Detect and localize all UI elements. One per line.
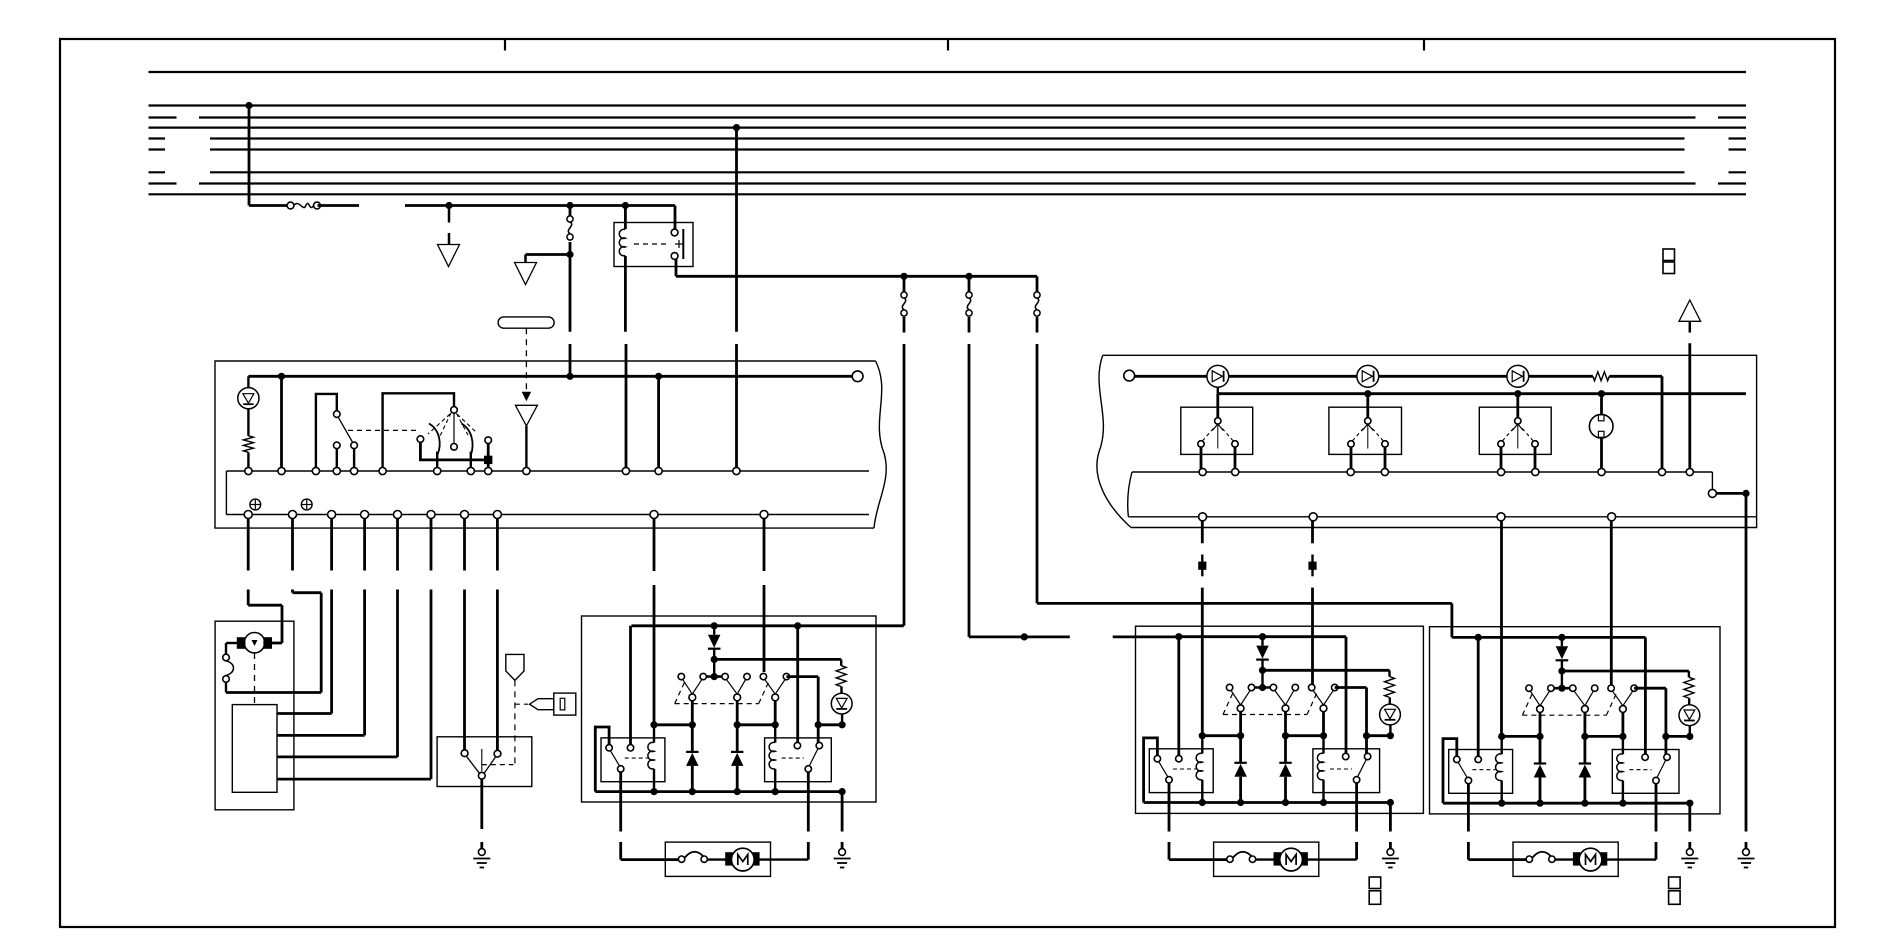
wire to resistor (driver) xyxy=(840,659,842,665)
diode D-top (LR) xyxy=(1256,637,1269,671)
junction diode out (LR) xyxy=(1259,667,1266,674)
wire arrow drop xyxy=(1688,343,1691,468)
wire relay contact feed xyxy=(674,206,677,230)
relay RB common (driver) xyxy=(805,766,811,772)
accessory socket xyxy=(1589,414,1613,438)
junction ground rail (driver) xyxy=(839,788,846,795)
lock switch blades xyxy=(467,756,496,773)
switch2 center blade xyxy=(453,413,455,443)
main switch box outline xyxy=(1097,355,1757,527)
relay RB box (driver) xyxy=(765,738,832,782)
motor M3 box (LR) xyxy=(1214,842,1319,876)
diode circle D2 xyxy=(1357,365,1379,387)
wire bus line 9 xyxy=(149,193,1747,195)
relay RA blade (driver) xyxy=(611,751,620,766)
switch2 fan dashes xyxy=(428,413,477,436)
junction step xyxy=(1742,490,1749,497)
switch blades (RR) xyxy=(1531,691,1550,705)
switch3 contacts xyxy=(1498,441,1538,447)
switch1 blade xyxy=(338,417,352,442)
diode D-top (driver) xyxy=(708,626,721,660)
window motor M1 box xyxy=(215,621,294,810)
junction master bus 1 xyxy=(278,373,285,380)
wire RA NO riser (RR) xyxy=(1477,637,1480,756)
page arrow down A xyxy=(438,245,460,267)
junction ground rail (driver) xyxy=(772,788,779,795)
relay coil xyxy=(619,229,625,256)
wire motor right lead (driver) xyxy=(759,842,808,860)
junction row dot (RR) xyxy=(1536,733,1543,740)
wire drop 904 lower xyxy=(903,344,906,626)
wire switch2 feed xyxy=(1366,394,1369,418)
ground G-main xyxy=(1738,849,1755,868)
switch linkage dashed xyxy=(348,429,419,431)
wire drop pin5 lower xyxy=(277,590,398,757)
LED indicator (RR) xyxy=(1679,705,1700,726)
window module LR box xyxy=(1136,626,1424,813)
lock knob switch box xyxy=(437,737,532,787)
wire bus line 6 xyxy=(149,148,1747,150)
switch contact 5 (LR) xyxy=(1309,684,1315,690)
relay RB pins (RR) xyxy=(1642,754,1670,760)
page arrow up xyxy=(1679,300,1701,321)
wire switch feed into box xyxy=(569,344,572,376)
wire LED down (LR) xyxy=(1389,725,1391,736)
wire lock ground lead lower xyxy=(480,842,483,849)
wire drop RR1 upper xyxy=(1201,521,1204,544)
terminal main bus end xyxy=(1124,370,1135,381)
junction ground rail (LR) xyxy=(1237,799,1244,806)
switch contact 6 (RR) xyxy=(1631,685,1637,691)
switch pole (RR) xyxy=(1537,706,1544,713)
wire switch3 contact drops xyxy=(1501,447,1535,468)
junction m2 rail riser xyxy=(1475,634,1482,641)
junction diode out (RR) xyxy=(1558,667,1565,674)
wire switch1 contact drops xyxy=(337,449,354,468)
relay contact pins xyxy=(671,229,678,259)
wire drop pin9 lower xyxy=(653,585,656,725)
wire relay coil feed xyxy=(624,206,627,230)
relay RA box (LR) xyxy=(1149,749,1213,793)
switch pole (RR) xyxy=(1620,706,1627,713)
switch2 blade L xyxy=(429,424,440,456)
diode clamp (LR) xyxy=(1279,736,1292,803)
page ref square C1 xyxy=(1669,877,1681,889)
switch1 pivot xyxy=(334,411,341,418)
junction feeder-ground arrow xyxy=(445,202,452,209)
junction rail2 sw3 xyxy=(1514,390,1521,397)
wire drop pin7 upper xyxy=(463,519,466,571)
wire bus line 3 xyxy=(149,116,1747,118)
wire drop 904 upper xyxy=(903,276,906,293)
wire resistor to LED (RR) xyxy=(1688,698,1690,705)
wire switch2 contact drops xyxy=(1351,447,1385,468)
switch2 left contact xyxy=(417,436,424,443)
junction row dot (RR) xyxy=(1662,733,1669,740)
arrow head filled xyxy=(522,392,532,402)
wire junction row 2 (driver) xyxy=(737,723,775,726)
motor M2 brushes (driver) xyxy=(726,853,759,865)
wire diode to contacts (LR) xyxy=(1261,670,1263,687)
switch contact 1 (RR) xyxy=(1526,685,1532,691)
wire switch1 feed xyxy=(1216,394,1219,418)
wire contact to RB (LR) xyxy=(1335,688,1367,754)
motor M4 box (RR) xyxy=(1513,842,1618,876)
relay RA coil feed (RR) xyxy=(1500,736,1502,754)
wire RB common down (LR) xyxy=(1355,783,1358,832)
wire RA NO riser (driver) xyxy=(629,626,632,745)
motor M4 body (RR) xyxy=(1579,848,1602,871)
lock switch pins xyxy=(461,750,501,757)
fusible link xyxy=(287,202,320,209)
wire drop 1037 upper xyxy=(1036,276,1039,293)
wire thermal to motor (LR) xyxy=(1256,858,1274,860)
page ref square B2 xyxy=(1369,891,1381,905)
junction row dot (LR) xyxy=(1387,732,1394,739)
resistor R-ind (RR) xyxy=(1684,677,1694,698)
motor M2 box (driver) xyxy=(665,842,770,876)
wire RA common down (RR) xyxy=(1467,784,1470,832)
diode clamp (RR) xyxy=(1579,736,1592,803)
junction rail2 socket xyxy=(1598,390,1605,397)
junction ground rail (driver) xyxy=(734,788,741,795)
wire motor right lead (RR) xyxy=(1607,842,1656,860)
main switch connector row xyxy=(1128,513,1756,521)
junction row dot (LR) xyxy=(1282,732,1289,739)
junction row dot (RR) xyxy=(1581,733,1588,740)
motor M3 body (LR) xyxy=(1280,848,1303,871)
wire switch3 feed xyxy=(1516,394,1519,418)
wire motor left lead (LR) xyxy=(1169,842,1227,860)
page ref square B1 xyxy=(1369,877,1381,889)
switch blades (driver) xyxy=(765,680,785,694)
ground G-LR xyxy=(1382,849,1399,868)
wire resistor to LED (LR) xyxy=(1389,697,1391,704)
wire rail2 link xyxy=(1217,381,1219,394)
switch2 center bottom contact xyxy=(451,444,458,451)
arrow triangle open xyxy=(515,405,537,426)
wire rail1 drop xyxy=(1661,376,1664,468)
switch contact 5 (driver) xyxy=(760,673,766,679)
wire drop pin4 upper xyxy=(363,519,366,571)
wire junction row 3 (LR) xyxy=(1367,734,1391,737)
wire drop pin10 upper xyxy=(763,519,766,572)
wire motor right lead (LR) xyxy=(1307,842,1356,860)
junction contact bar (RR) xyxy=(1558,685,1565,692)
relay RB dashed (RR) xyxy=(1629,769,1651,771)
switch contact 3 (LR) xyxy=(1270,684,1276,690)
junction row dot (RR) xyxy=(1619,733,1626,740)
page arrow down B xyxy=(515,263,537,285)
diode clamp (driver) xyxy=(686,725,699,792)
resistor R-ind (LR) xyxy=(1385,677,1395,698)
wire junction row 3 (driver) xyxy=(818,723,842,726)
relay RA pins (driver) xyxy=(606,745,634,751)
junction row dot (LR) xyxy=(1199,732,1206,739)
wire bus4 drop upper xyxy=(735,128,738,332)
junction row dot (driver) xyxy=(772,721,779,728)
wire module ground rail (RR) xyxy=(1443,802,1690,805)
relay RA blade (RR) xyxy=(1458,763,1467,778)
wire motor left lead (driver) xyxy=(621,842,679,860)
junction switched rail B xyxy=(965,273,972,280)
switch contact 4 (driver) xyxy=(744,673,750,679)
relay RB box (LR) xyxy=(1313,749,1380,793)
switch contact 5 (RR) xyxy=(1608,685,1614,691)
relay RB coil feed (LR) xyxy=(1322,736,1324,754)
junction ground rail (LR) xyxy=(1387,799,1394,806)
relay RB box (RR) xyxy=(1612,750,1679,794)
wire switch feed mid xyxy=(569,242,572,255)
junction module1 feed xyxy=(1021,633,1028,640)
wire RA common down (driver) xyxy=(619,772,622,831)
wire drop pin5 upper xyxy=(396,519,399,571)
wire main box ground drop xyxy=(1745,493,1748,831)
lock switch linkage dashed xyxy=(482,764,514,766)
wire drop RR4 xyxy=(1610,521,1613,685)
LED diode symbol xyxy=(243,394,254,405)
wire junction row 1 (driver) xyxy=(654,723,692,726)
terminal step pin xyxy=(1708,489,1716,497)
wire switch1 frame xyxy=(316,394,337,468)
wire LR ground lower xyxy=(1389,842,1392,849)
switch2 blade R xyxy=(462,424,473,456)
switch contact 4 (LR) xyxy=(1292,684,1298,690)
ground G-RR xyxy=(1681,849,1698,868)
junction ground rail (RR) xyxy=(1581,800,1588,807)
wire diode rail right (LR) xyxy=(1263,669,1390,672)
terminal master bus end xyxy=(852,371,863,382)
wire main rail1 b xyxy=(1609,375,1662,378)
switch3 pin xyxy=(1515,418,1521,424)
wire drop RR2 lower xyxy=(1311,588,1314,685)
resistor R-ind (driver) xyxy=(836,666,846,687)
junction contact bar (LR) xyxy=(1259,684,1266,691)
LED indicator (driver) xyxy=(831,693,852,714)
relay RA box (RR) xyxy=(1449,750,1513,794)
switch contact 3 (RR) xyxy=(1570,685,1576,691)
thermal protector (LR) xyxy=(1227,852,1256,863)
window switch box 3 xyxy=(1479,407,1551,454)
screw terminal 1 xyxy=(250,499,261,510)
wire bus line 4 xyxy=(149,126,1747,128)
junction row dot (LR) xyxy=(1237,732,1244,739)
master switch connector row xyxy=(226,511,869,519)
wire driver module rail xyxy=(632,624,904,627)
wire module ground rail (driver) xyxy=(595,790,842,793)
motor M2 body (driver) xyxy=(731,848,754,871)
wire pole risers (RR) xyxy=(1540,712,1623,736)
switch blades (driver) xyxy=(727,680,746,694)
junction row dot (LR) xyxy=(1363,732,1370,739)
relay box xyxy=(614,223,693,267)
wire bus line 7 xyxy=(149,171,1747,173)
connector C3 inline xyxy=(966,292,972,316)
wire junction row 1 (RR) xyxy=(1502,735,1540,738)
wire ground-arrow stem xyxy=(448,206,451,245)
relay RB pins (driver) xyxy=(794,742,822,748)
switch pole (LR) xyxy=(1282,705,1289,712)
wire bus line 1 xyxy=(149,71,1747,73)
switch contact 1 (LR) xyxy=(1226,684,1232,690)
wire RB NO riser (RR) xyxy=(1644,637,1647,754)
wire drop 1037 lower xyxy=(1036,344,1039,603)
relay RB coil feed (RR) xyxy=(1622,736,1624,754)
wire drop 969 upper xyxy=(968,276,971,293)
wire ground lead down (RR) xyxy=(1688,803,1691,831)
junction m2 rail diode xyxy=(1558,634,1565,641)
wire battery feed drop xyxy=(248,106,251,206)
wire drop 1037 mid xyxy=(1036,317,1039,333)
wire feeder segment C xyxy=(405,204,675,207)
window switch box 1 xyxy=(1181,407,1253,454)
junction master bus 2 xyxy=(566,373,573,380)
switch1 blades xyxy=(1203,424,1233,449)
wire contact to RB (RR) xyxy=(1634,688,1666,754)
switch2 right contact xyxy=(485,437,492,444)
junction arrow branch xyxy=(566,251,573,258)
motor M3 brushes (LR) xyxy=(1274,853,1307,865)
wire RA NC hook (driver) xyxy=(595,727,609,792)
relay RB coil (LR) xyxy=(1317,753,1323,780)
junction rail2 sw2 xyxy=(1364,390,1371,397)
diode circle D1 xyxy=(1207,365,1229,387)
switch contact 6 (driver) xyxy=(783,673,789,679)
junction switch2 U xyxy=(484,456,492,464)
wire pole risers (driver) xyxy=(692,701,775,725)
junction driver rail RB xyxy=(794,622,801,629)
window switch box 2 xyxy=(1329,407,1402,454)
relay RA dashed (RR) xyxy=(1472,769,1495,771)
switch contact 2 (RR) xyxy=(1548,685,1554,691)
thermal protector (driver) xyxy=(678,852,707,863)
motor M4 brushes (RR) xyxy=(1573,853,1606,865)
main switch pin row upper xyxy=(1128,468,1713,516)
wire to resistor (LR) xyxy=(1388,670,1390,676)
wire drop pin10 lower xyxy=(763,585,766,672)
wire module1 rail xyxy=(1179,635,1346,638)
switch contact 4 (RR) xyxy=(1592,685,1598,691)
switch contact 6 (LR) xyxy=(1332,684,1338,690)
wire module1 feed xyxy=(969,636,1179,639)
wire contact bar (LR) xyxy=(1252,686,1274,689)
wire RA common down (LR) xyxy=(1168,783,1171,832)
connector inline mark 1 xyxy=(1199,555,1206,577)
relay RA dashed (driver) xyxy=(625,757,648,759)
relay RA coil (LR) xyxy=(1196,753,1202,780)
switch2 blades xyxy=(1353,424,1383,449)
relay RB dashed (LR) xyxy=(1330,768,1352,770)
relay RA dashed (LR) xyxy=(1173,768,1196,770)
wire socket drop xyxy=(1600,438,1603,469)
wire junction row 2 (LR) xyxy=(1286,734,1324,737)
relay RB blade (driver) xyxy=(809,749,818,766)
junction m1 rail riser xyxy=(1175,633,1182,640)
window module driver box xyxy=(582,616,877,802)
switch blades (driver) xyxy=(683,680,702,694)
relay RA common (driver) xyxy=(618,766,624,772)
wire thermal to motor (driver) xyxy=(707,858,725,860)
wire feeder segment A xyxy=(249,204,290,207)
wire resistor to LED (driver) xyxy=(840,687,842,694)
diode clamp (driver) xyxy=(731,725,744,792)
wire LED down (RR) xyxy=(1689,726,1691,737)
wire feeder segment B xyxy=(318,204,360,207)
wire motor M1 left lead xyxy=(226,643,237,654)
relay RA blade (LR) xyxy=(1159,762,1168,777)
connector inline mark 2 xyxy=(1309,555,1316,577)
wire relay coil out lower xyxy=(625,344,628,468)
wire RA NC hook (LR) xyxy=(1144,738,1158,803)
wire RA coil out (LR) xyxy=(1201,780,1203,803)
connector C1 inline xyxy=(567,216,573,240)
switch pole (driver) xyxy=(734,694,741,701)
switch blades (LR) xyxy=(1313,691,1333,705)
switch blades (RR) xyxy=(1613,691,1633,705)
wire main ground lower xyxy=(1745,842,1748,849)
relay link dashed xyxy=(634,243,668,245)
relay RB coil (driver) xyxy=(769,742,775,769)
wire contact to RB (driver) xyxy=(786,677,818,743)
relay RA coil (RR) xyxy=(1496,754,1502,781)
switch contact 3 (driver) xyxy=(722,673,728,679)
LED lamp circle xyxy=(238,388,259,409)
relay RB dashed (driver) xyxy=(782,757,804,759)
junction ground rail (RR) xyxy=(1536,800,1543,807)
wire RB NO riser (LR) xyxy=(1345,637,1348,754)
wire RR ground lower xyxy=(1688,842,1691,849)
wire junction row 3 (RR) xyxy=(1666,735,1690,738)
wire drop 969 mid xyxy=(968,317,971,333)
switch contact 2 (driver) xyxy=(700,673,706,679)
motor M1 body xyxy=(237,633,271,653)
wire switch feed lower xyxy=(569,255,572,332)
wire main rail1 a xyxy=(1135,375,1593,378)
relay RB blade (LR) xyxy=(1358,760,1367,777)
wire switch2 frame xyxy=(383,393,454,467)
switch2 contacts xyxy=(1348,441,1388,447)
lock switch pivot xyxy=(481,749,483,771)
dashed key to cylinder xyxy=(515,703,528,705)
junction diode out (driver) xyxy=(711,656,718,663)
wire LED to resistor xyxy=(247,409,249,436)
wire master internal bus xyxy=(248,375,852,378)
junction feeder-switch drop xyxy=(566,202,573,209)
page ref square A1 xyxy=(1663,249,1675,261)
wire junction row 2 (RR) xyxy=(1585,735,1623,738)
wire drop pin2 upper xyxy=(291,519,294,571)
junction on bus line 2 xyxy=(245,102,252,109)
wire module2 feed xyxy=(1037,603,1452,637)
switch contact 1 (driver) xyxy=(678,673,684,679)
wire arrow to pin xyxy=(525,426,527,468)
wire switch1 contact drops xyxy=(1201,447,1235,468)
connector C2 inline xyxy=(901,292,907,316)
junction switched rail A xyxy=(900,273,907,280)
wire master bus riser 658 xyxy=(657,376,660,467)
junction ground rail (LR) xyxy=(1320,799,1327,806)
switch3 blades xyxy=(1503,424,1533,449)
switch linkage dashed (RR) xyxy=(1522,691,1617,715)
switch pole (LR) xyxy=(1237,705,1244,712)
wire RB NO riser (driver) xyxy=(796,626,799,743)
junction ground rail (LR) xyxy=(1282,799,1289,806)
wire main rail2 xyxy=(1218,392,1746,395)
wire drop pin3 lower xyxy=(277,590,332,714)
junction row dot (RR) xyxy=(1686,733,1693,740)
switch1 contacts xyxy=(1198,441,1238,447)
wire thermal to motor (RR) xyxy=(1555,858,1573,860)
